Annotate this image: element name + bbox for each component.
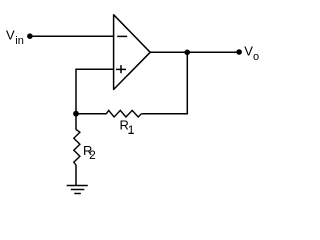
node output junction: [184, 50, 190, 56]
wire: [141, 113, 188, 115]
svg-text:1: 1: [128, 123, 135, 137]
label Vo: [244, 44, 259, 63]
node junction A: [73, 111, 79, 117]
resistor R2: [74, 130, 80, 166]
label R2: [83, 143, 96, 162]
wire: [150, 51, 239, 53]
svg-text:o: o: [253, 51, 259, 63]
wire: [76, 113, 107, 115]
svg-text:in: in: [15, 35, 24, 47]
wire: [30, 35, 114, 37]
label Vin: [6, 28, 24, 47]
svg-text:V: V: [6, 28, 15, 43]
svg-text:2: 2: [89, 148, 96, 162]
node Vo terminal: [236, 49, 242, 55]
svg-text:V: V: [244, 44, 253, 59]
wire: [75, 165, 77, 186]
ground: [67, 186, 88, 194]
node Vin terminal: [27, 33, 33, 39]
resistor R1: [106, 110, 141, 117]
wire: [186, 52, 188, 114]
label R1: [120, 117, 135, 137]
wire: [76, 69, 114, 129]
op-amp U1: [114, 15, 151, 90]
